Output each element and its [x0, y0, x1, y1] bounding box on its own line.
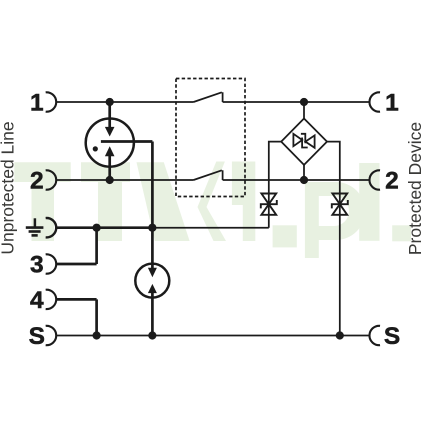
svg-text:1: 1: [30, 89, 44, 116]
svg-text:2: 2: [385, 167, 399, 194]
svg-text:3: 3: [30, 251, 44, 278]
svg-text:4: 4: [30, 287, 44, 314]
svg-text:1: 1: [385, 89, 399, 116]
svg-text:S: S: [29, 323, 45, 350]
svg-text:Unprotected Line: Unprotected Line: [0, 121, 18, 254]
svg-text:2: 2: [30, 167, 44, 194]
svg-text:S: S: [384, 323, 400, 350]
svg-text:Protected Device: Protected Device: [405, 122, 423, 255]
